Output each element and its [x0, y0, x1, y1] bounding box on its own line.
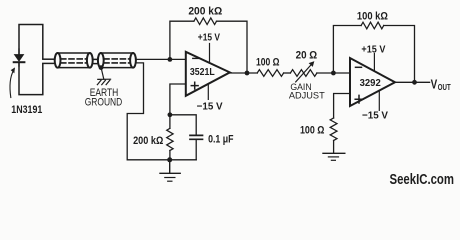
label V OUT	[431, 77, 451, 92]
svg-text:−15 V: −15 V	[197, 102, 223, 113]
wire: feedback left riser	[170, 21, 194, 59]
resistor R2 200 kOhm (vertical)	[167, 128, 173, 150]
wire: top conductor from cable 2 to U1 inverting input	[136, 58, 186, 60]
junction dot: U2 inverting input / feedback node	[331, 71, 336, 76]
svg-text:3292: 3292	[360, 78, 381, 89]
svg-text:+15 V: +15 V	[198, 33, 220, 44]
arrow pointing to photodiode	[10, 68, 15, 98]
U1 -15V pin	[207, 84, 209, 99]
U2 -15V pin	[378, 91, 380, 111]
capacitor C1 0.1 uF	[190, 135, 203, 139]
wire: U2 output	[395, 81, 430, 83]
svg-text:SeekIC.com: SeekIC.com	[390, 172, 455, 188]
wire: capacitor bottom stem	[195, 139, 197, 160]
wire: U2 feedback right riser	[384, 26, 415, 83]
op-amp U1 3521L	[186, 52, 230, 96]
wire: dot to resistor R2	[169, 115, 171, 129]
wire: feedback right riser to output	[217, 21, 248, 73]
svg-text:100 Ω: 100 Ω	[300, 125, 325, 137]
label EARTH GROUND	[85, 87, 123, 109]
wire: R2 bottom to rail	[169, 151, 171, 160]
U1 plus marker	[191, 82, 198, 89]
shielded cable segment 1	[55, 53, 93, 68]
op-amp U2 3292	[350, 58, 395, 106]
U1 minus marker	[193, 57, 199, 59]
svg-text:−15 V: −15 V	[362, 111, 388, 122]
wire: R3 to potentiometer	[284, 72, 291, 74]
svg-text:100 Ω: 100 Ω	[256, 57, 280, 69]
svg-text:OUT: OUT	[438, 83, 451, 92]
resistor R6 100 Ohm (vertical, U2 + input)	[330, 118, 337, 141]
ground symbol (signal ground, U1 network)	[160, 160, 180, 181]
resistor R3 100 Ohm	[257, 70, 283, 77]
label GAIN ADJUST	[289, 82, 325, 101]
wire: U2 feedback left riser	[333, 26, 361, 74]
junction dot: U1 inverting input / feedback node	[168, 57, 173, 62]
svg-text:+15 V: +15 V	[361, 44, 385, 55]
resistor R5 100 kOhm (feedback U2)	[361, 22, 384, 29]
potentiometer R4 20 Ohm (gain adjust)	[290, 70, 317, 77]
svg-text:200 kΩ: 200 kΩ	[188, 6, 222, 18]
svg-text:0.1 μF: 0.1 μF	[208, 133, 234, 145]
photodiode D1 1N3191	[14, 49, 25, 66]
U1 +15V pin	[209, 44, 211, 64]
shielded cable segment 2	[98, 53, 136, 68]
wire: U1 output	[230, 72, 257, 74]
svg-text:ADJUST: ADJUST	[289, 90, 325, 101]
svg-text:100 kΩ: 100 kΩ	[357, 10, 388, 22]
U2 +15V pin	[373, 54, 375, 72]
wire: conductors between cable 1 and cable 2	[93, 59, 98, 63]
junction: cable shield bond to earth	[99, 65, 104, 70]
potentiometer wiper arrow	[296, 62, 314, 82]
wire: U2 non-inverting input	[334, 94, 350, 119]
svg-text:V: V	[431, 77, 438, 91]
wire: box to cable 1, bottom conductor	[43, 62, 55, 64]
wire: top rail to capacitor	[170, 115, 196, 135]
U2 minus marker	[356, 66, 362, 68]
svg-text:20 Ω: 20 Ω	[296, 49, 318, 61]
svg-text:1N3191: 1N3191	[11, 104, 42, 116]
svg-text:GROUND: GROUND	[85, 97, 123, 109]
wire: R6 to ground	[333, 141, 335, 153]
earth ground symbol	[97, 69, 110, 85]
wire: box to cable 1, top conductor	[43, 58, 55, 60]
junction dot: output node	[412, 80, 417, 85]
resistor R1 200 kOhm (feedback U1)	[194, 18, 217, 25]
wire: bottom conductor from cable 2 down to ground rail	[127, 63, 196, 160]
junction dot: non-inverting network top	[168, 112, 173, 117]
U2 plus marker	[355, 95, 363, 103]
photodiode enclosure box	[19, 25, 43, 95]
svg-text:200 kΩ: 200 kΩ	[133, 135, 164, 147]
junction dot: U1 output / feedback	[245, 71, 250, 76]
wire: potentiometer to U2 inverting input	[317, 72, 350, 74]
wire: U1 non-inverting input	[170, 84, 186, 115]
junction dot: ground rail	[167, 157, 172, 162]
svg-text:3521L: 3521L	[190, 67, 215, 78]
ground symbol (U2 network)	[323, 153, 345, 160]
